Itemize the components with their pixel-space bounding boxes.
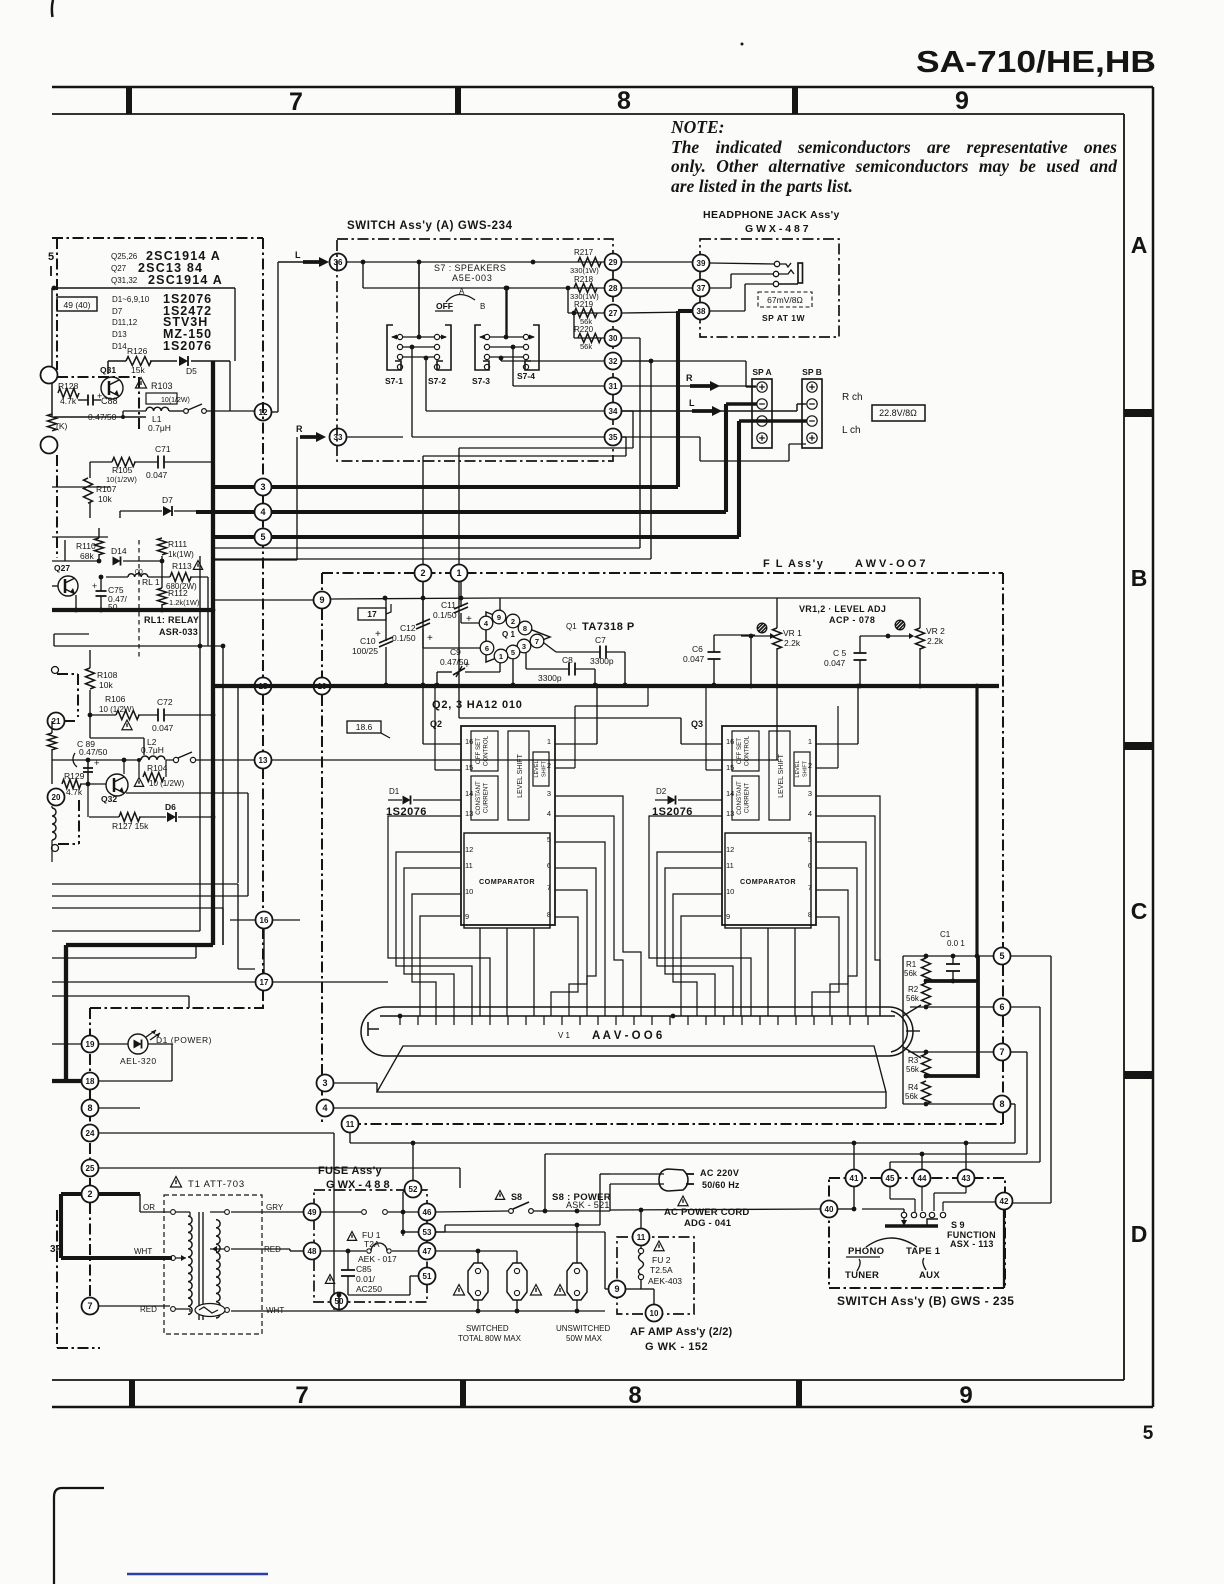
svg-text:10k: 10k xyxy=(99,680,113,690)
svg-text:S7-4: S7-4 xyxy=(517,371,535,381)
wire R126 row xyxy=(108,360,126,362)
thin left feeders xyxy=(52,486,110,488)
svg-text:5: 5 xyxy=(1143,1423,1154,1444)
SP A terminal + top xyxy=(757,382,767,392)
wire 45 to contact2 xyxy=(889,1187,891,1199)
wire L to SPB xyxy=(622,410,797,412)
wire Q32 collector xyxy=(123,760,125,774)
comparator bottom stubs Q2 xyxy=(479,928,481,1016)
wire 42 down edge xyxy=(1003,1210,1005,1288)
wire switch to connector 12 xyxy=(206,410,254,412)
wire 40 to contact1 xyxy=(862,1208,904,1210)
display V1 outer tube xyxy=(361,1007,913,1056)
arrow R to SP xyxy=(690,384,711,388)
VR1 adjust screw xyxy=(757,623,767,633)
connector 46 xyxy=(419,1204,436,1221)
svg-text:3: 3 xyxy=(522,642,526,651)
label S8 xyxy=(495,1191,504,1200)
svg-text:42: 42 xyxy=(1000,1197,1009,1206)
svg-text:R2: R2 xyxy=(908,985,919,994)
svg-text:WHT: WHT xyxy=(134,1247,152,1256)
transformer terminal WHT-left xyxy=(171,1256,176,1261)
diode D6 symbol xyxy=(167,812,176,822)
svg-text:OFF: OFF xyxy=(436,301,453,311)
jack contact 2 xyxy=(773,271,778,276)
svg-text:0.047: 0.047 xyxy=(146,470,168,480)
svg-text:LEVEL: LEVEL xyxy=(795,760,801,777)
svg-text:1S2076: 1S2076 xyxy=(163,339,212,353)
transformer T1 dashed box xyxy=(164,1195,262,1334)
border: bottom band tick 3 xyxy=(796,1380,802,1407)
transformer terminal OR xyxy=(171,1210,176,1215)
connector 10 FL xyxy=(314,678,331,695)
wire LED loop to 18 xyxy=(148,1043,172,1045)
svg-text:PHONO: PHONO xyxy=(848,1246,884,1257)
connector 52 xyxy=(412,1143,414,1180)
svg-text:5: 5 xyxy=(511,648,515,657)
svg-text:10(1/2W): 10(1/2W) xyxy=(106,475,137,484)
fuse FU1 T2A xyxy=(367,1249,371,1253)
connector 37 xyxy=(693,280,710,297)
wire 35 to FL connector 2 xyxy=(622,436,626,438)
svg-text:R112: R112 xyxy=(168,588,188,598)
transformer terminal GRY xyxy=(225,1210,230,1215)
svg-text:Q3: Q3 xyxy=(691,719,703,729)
bottom-left dash-dot box corner xyxy=(56,1210,58,1348)
svg-text:R103: R103 xyxy=(151,381,173,391)
wire 42 to contact5 xyxy=(943,1201,996,1203)
switch S8 xyxy=(509,1209,514,1214)
wire node top xyxy=(52,287,235,289)
svg-text:6: 6 xyxy=(999,1002,1004,1012)
svg-text:SWITCHED: SWITCHED xyxy=(466,1324,509,1333)
AC outlet 3 xyxy=(567,1263,587,1300)
border: right band separator A/B xyxy=(1124,409,1153,417)
svg-text:AUX: AUX xyxy=(919,1270,940,1281)
display bus line xyxy=(380,1015,895,1017)
resistor R126 15k xyxy=(126,357,151,366)
svg-text:27: 27 xyxy=(609,309,618,318)
bottom-left corner bracket xyxy=(54,1488,104,1584)
wire 35 row inside xyxy=(412,436,604,438)
wire 5 to 42 xyxy=(1011,955,1051,957)
wire 36 to 29 xyxy=(347,261,604,263)
connector 5 FL xyxy=(994,948,1011,965)
blue scan line xyxy=(127,1573,268,1575)
fuse FU2 xyxy=(638,1248,643,1253)
connector 30 xyxy=(605,330,622,347)
wire R126 to Q31 xyxy=(107,361,109,374)
wire 6 to 45 xyxy=(1011,1006,1040,1008)
transformer terminal WHT-right xyxy=(225,1308,230,1313)
IC Q2 HA12010 xyxy=(461,726,555,925)
svg-text:12: 12 xyxy=(465,845,473,854)
svg-text:Q31: Q31 xyxy=(100,365,116,375)
svg-text:0.047: 0.047 xyxy=(683,654,705,664)
svg-text:8: 8 xyxy=(87,1103,92,1113)
svg-text:S 9: S 9 xyxy=(951,1220,965,1230)
svg-text:ADG - 041: ADG - 041 xyxy=(684,1218,732,1229)
connector 11 AF xyxy=(633,1229,650,1246)
wire bundle h6 xyxy=(52,995,189,997)
wire 19 to LED xyxy=(99,1043,128,1045)
wire 31 row inside xyxy=(513,385,604,387)
connector 44 xyxy=(914,1170,931,1187)
connector 24 xyxy=(82,1125,99,1142)
svg-text:10: 10 xyxy=(650,1309,659,1318)
thick wire 3 left xyxy=(213,485,254,489)
connector 29 xyxy=(605,254,622,271)
selector arc AUX xyxy=(923,1258,926,1270)
svg-text:56k: 56k xyxy=(904,969,918,978)
connector box 49(40) xyxy=(57,297,97,311)
FL bus thick xyxy=(213,684,999,688)
wire Q3 pin2 xyxy=(816,767,838,769)
switch contact after L1 xyxy=(184,409,189,414)
border: right band separator B/C xyxy=(1124,742,1153,750)
connector 13 xyxy=(255,752,272,769)
svg-text:0.1/50: 0.1/50 xyxy=(433,610,457,620)
wire C7 xyxy=(544,643,556,652)
selector arc PHONO-TAPE xyxy=(866,1238,917,1247)
wire 48 row xyxy=(321,1250,366,1252)
thick wire 5 left xyxy=(213,535,254,539)
svg-text:10 (1/2W): 10 (1/2W) xyxy=(149,779,184,788)
svg-text:D6: D6 xyxy=(165,802,176,812)
arrow L to SP xyxy=(692,409,713,413)
wire cord to outlets xyxy=(445,1224,600,1226)
svg-text:R220: R220 xyxy=(574,325,594,334)
svg-text:D: D xyxy=(1131,1221,1148,1247)
wire R2 to connector6 row xyxy=(925,1005,927,1007)
svg-text:A: A xyxy=(1131,232,1148,258)
diode D5 xyxy=(179,356,188,366)
wire C88 row xyxy=(78,399,88,401)
svg-text:AC POWER CORD: AC POWER CORD xyxy=(664,1207,749,1218)
svg-text:10: 10 xyxy=(465,887,473,896)
transformer secondary coil xyxy=(216,1220,220,1318)
resistor R129 4.7k xyxy=(62,780,81,789)
svg-text:C12: C12 xyxy=(400,623,416,633)
svg-text:CURRENT: CURRENT xyxy=(483,783,490,813)
svg-text:7: 7 xyxy=(295,1382,308,1409)
svg-text:R105: R105 xyxy=(112,465,133,475)
jack contact 3 xyxy=(773,281,778,286)
svg-text:2.2k: 2.2k xyxy=(784,638,801,648)
wire outlet feeds xyxy=(436,1250,517,1252)
svg-text:R1: R1 xyxy=(906,960,917,969)
display grid outline xyxy=(377,1046,886,1092)
thick VR feed xyxy=(975,686,978,956)
svg-text:COMPARATOR: COMPARATOR xyxy=(740,877,796,886)
relay dashed outline xyxy=(138,540,140,657)
thick wire 5 right xyxy=(272,535,739,539)
svg-text:SA-710/HE,HB: SA-710/HE,HB xyxy=(916,44,1156,79)
svg-text:3: 3 xyxy=(808,789,812,798)
connector 33 xyxy=(330,429,347,446)
svg-text:CONTROL: CONTROL xyxy=(744,735,751,766)
svg-text:46: 46 xyxy=(423,1208,432,1217)
svg-text:S7-2: S7-2 xyxy=(428,376,446,386)
svg-text:C88: C88 xyxy=(101,396,118,406)
wire R113 to bus xyxy=(190,576,208,578)
resistor R113 680(2W) xyxy=(170,573,191,582)
svg-text:19: 19 xyxy=(86,1040,95,1049)
wire switch to 13 xyxy=(196,759,254,761)
svg-text:0.47/50: 0.47/50 xyxy=(79,747,108,757)
svg-text:ACP - 078: ACP - 078 xyxy=(829,615,875,625)
svg-text:52: 52 xyxy=(409,1185,418,1194)
display pin ticks xyxy=(399,1016,401,1025)
svg-text:R113: R113 xyxy=(172,561,192,571)
wire x200 vertical xyxy=(199,556,201,646)
connector 34 xyxy=(605,403,622,420)
wire S7 drop from 28 xyxy=(505,288,507,337)
svg-text:0.047: 0.047 xyxy=(152,723,174,733)
wire 40 row xyxy=(610,1209,820,1210)
resistor R107 10k xyxy=(84,478,93,503)
resistor R128 4.7k xyxy=(58,389,79,398)
svg-text:13: 13 xyxy=(465,809,473,818)
connector 7 xyxy=(82,1298,99,1315)
svg-text:A5E-003: A5E-003 xyxy=(452,273,493,283)
capacitor C1 0.01 xyxy=(946,963,960,965)
FL dash-dot box right xyxy=(1002,573,1004,947)
connector 42 xyxy=(996,1193,1013,1210)
connector 50 xyxy=(331,1293,348,1310)
svg-text:13: 13 xyxy=(726,809,734,818)
svg-text:A W V - O O 7: A W V - O O 7 xyxy=(855,558,926,570)
border: bottom band upper rule xyxy=(52,1379,1124,1381)
svg-text:L: L xyxy=(689,398,695,408)
resistor R110 68k xyxy=(95,538,104,555)
connector 36 xyxy=(330,254,347,271)
switch assy A dash-dot box xyxy=(337,239,613,461)
svg-text:18.6: 18.6 xyxy=(356,722,373,732)
svg-text:36: 36 xyxy=(334,258,343,267)
left dash-dot partial box mid-2 xyxy=(78,800,80,844)
wire bundle v1 xyxy=(237,884,239,969)
connector 11 FL xyxy=(342,1116,359,1133)
svg-text:16: 16 xyxy=(260,916,269,925)
resistor R217 330(1W) xyxy=(578,258,601,267)
svg-text:D1~6,9,10: D1~6,9,10 xyxy=(112,295,150,304)
svg-text:2: 2 xyxy=(87,1189,92,1199)
svg-text:11: 11 xyxy=(465,861,473,870)
interlock contacts xyxy=(362,1210,367,1215)
svg-text:38: 38 xyxy=(697,307,706,316)
capacitor C72 xyxy=(157,709,159,722)
border: top band tick 2 xyxy=(455,87,461,114)
svg-text:SWITCH Ass'y (A) GWS-234: SWITCH Ass'y (A) GWS-234 xyxy=(347,220,513,232)
svg-text:R217: R217 xyxy=(574,248,594,257)
wire left vertical x52 xyxy=(51,288,53,417)
svg-text:10 (1/2W): 10 (1/2W) xyxy=(99,705,134,714)
svg-text:11: 11 xyxy=(637,1233,646,1242)
connector 3 FL xyxy=(317,1075,334,1092)
svg-text:330(1W): 330(1W) xyxy=(570,266,599,275)
transistor Q31 xyxy=(101,377,123,399)
wire connector1 to Q3 pin16 xyxy=(458,582,460,718)
thick wire SPA minus down xyxy=(726,402,757,406)
svg-text:6: 6 xyxy=(485,644,489,653)
svg-text:R218: R218 xyxy=(574,275,594,284)
svg-text:17: 17 xyxy=(367,609,377,619)
svg-text:S7 : SPEAKERS: S7 : SPEAKERS xyxy=(434,263,506,273)
wire C12 to pin6 xyxy=(423,647,480,649)
headphone dash-dot box xyxy=(700,239,839,337)
transistor Q27 xyxy=(58,576,78,596)
thick stub into 18 xyxy=(52,1079,82,1083)
connector 9 AF xyxy=(609,1281,626,1298)
wire VR2 bottom xyxy=(919,648,921,686)
wire 34 to FL connector 1 xyxy=(622,410,633,412)
svg-text:8: 8 xyxy=(523,624,527,633)
AC outlet 2 xyxy=(507,1263,527,1300)
svg-text:V 1: V 1 xyxy=(558,1031,571,1040)
thick vertical x978 xyxy=(976,956,980,1078)
wire 8 right xyxy=(99,1107,140,1109)
border: bottom band tick 2 xyxy=(460,1380,466,1407)
svg-text:4: 4 xyxy=(808,809,812,818)
wire 9 left stub xyxy=(214,599,313,601)
wire bundle h1 xyxy=(52,883,238,885)
svg-text:20: 20 xyxy=(52,793,61,802)
capacitor C6 xyxy=(708,651,721,653)
connector 4 FL xyxy=(317,1100,334,1117)
svg-text:4: 4 xyxy=(260,507,265,517)
wire L1 row xyxy=(54,416,146,418)
arrow R xyxy=(300,435,317,439)
svg-text:Q25,26: Q25,26 xyxy=(111,252,138,261)
transformer terminal RED-left xyxy=(171,1307,176,1312)
svg-text:VR 2: VR 2 xyxy=(926,626,945,636)
svg-text:9: 9 xyxy=(497,613,501,622)
wire bundle h4 xyxy=(52,930,200,932)
VR2 adjust screw xyxy=(895,620,905,630)
svg-text:13: 13 xyxy=(259,756,268,765)
svg-text:9: 9 xyxy=(959,1382,972,1409)
wire C85 xyxy=(347,1251,349,1270)
wire 28 to 37 xyxy=(622,287,692,289)
connector 16 xyxy=(256,912,273,929)
svg-text:D14: D14 xyxy=(111,546,127,556)
svg-text:51: 51 xyxy=(423,1272,432,1281)
connector 47 xyxy=(419,1243,436,1260)
svg-text:53: 53 xyxy=(423,1228,432,1237)
capacitor C85 xyxy=(341,1269,355,1271)
svg-text:FU 2: FU 2 xyxy=(652,1255,671,1265)
connector 28 xyxy=(605,280,622,297)
resistor R106 xyxy=(116,711,139,720)
arrow L xyxy=(303,260,320,264)
wire 43 to contact4 xyxy=(965,1187,967,1193)
svg-text:48: 48 xyxy=(308,1247,317,1256)
svg-text:2: 2 xyxy=(511,617,515,626)
svg-text:FUSE Ass'y: FUSE Ass'y xyxy=(318,1165,382,1177)
SP A terminal - 2 xyxy=(757,416,767,426)
thick wire 4 right xyxy=(272,510,726,514)
svg-text:S7-3: S7-3 xyxy=(472,376,490,386)
svg-text:C85: C85 xyxy=(356,1264,372,1274)
wire unswitched feed xyxy=(436,1231,605,1233)
wire GRY to 49 xyxy=(231,1211,303,1213)
wire C1 xyxy=(952,956,954,964)
transistor Q32 xyxy=(106,774,128,796)
svg-text:A A V - O O 6: A A V - O O 6 xyxy=(592,1030,662,1042)
svg-text:0.01/: 0.01/ xyxy=(356,1274,376,1284)
wire bundle v3 xyxy=(222,908,224,945)
svg-text:0.1/50: 0.1/50 xyxy=(392,633,416,643)
thick junction R1R2 xyxy=(924,979,978,983)
svg-text:L: L xyxy=(295,250,301,260)
svg-text:SP A: SP A xyxy=(752,367,771,377)
svg-text:16: 16 xyxy=(465,737,473,746)
wire bundle vertical x223 xyxy=(222,686,224,945)
svg-text:Q2: Q2 xyxy=(430,719,442,729)
wire D7 row xyxy=(120,510,162,512)
wire 11 up xyxy=(640,1210,642,1228)
svg-text:AF AMP Ass'y (2/2): AF AMP Ass'y (2/2) xyxy=(630,1326,733,1338)
svg-text:R108: R108 xyxy=(97,670,118,680)
connector 32 xyxy=(605,353,622,370)
svg-text:33: 33 xyxy=(334,433,343,442)
svg-text:CONSTANT: CONSTANT xyxy=(475,781,482,815)
resistor R220 56k xyxy=(578,334,601,343)
capacitor C75 xyxy=(96,590,107,592)
svg-text:0.0 1: 0.0 1 xyxy=(947,939,965,948)
wire 9 row to Q1 xyxy=(331,598,500,599)
cut coil left col xyxy=(52,808,56,840)
svg-text:D7: D7 xyxy=(112,307,123,316)
svg-text:1: 1 xyxy=(547,737,551,746)
SP B terminal - 2 xyxy=(807,416,817,426)
wire bundle h2 xyxy=(52,895,248,897)
svg-text:R104: R104 xyxy=(147,763,168,773)
svg-text:100/25: 100/25 xyxy=(352,646,378,656)
wire C8 xyxy=(525,653,527,669)
svg-text:SHIFT: SHIFT xyxy=(803,760,809,777)
svg-text:8: 8 xyxy=(617,87,631,115)
svg-text:Q31,32: Q31,32 xyxy=(111,276,138,285)
svg-text:25: 25 xyxy=(86,1164,95,1173)
wire 44 to contact3 xyxy=(921,1187,923,1211)
LED D1 POWER xyxy=(128,1034,148,1054)
SP B terminal - 1 xyxy=(807,399,817,409)
svg-text:22.8V/8Ω: 22.8V/8Ω xyxy=(879,408,917,418)
svg-text:47: 47 xyxy=(423,1247,432,1256)
switch S9 selector bar xyxy=(885,1224,938,1227)
wire 31 to SPA xyxy=(622,385,756,387)
display right cap arcs xyxy=(891,1011,907,1052)
warn outlet 3 xyxy=(554,1285,565,1296)
svg-text:+: + xyxy=(92,581,97,591)
wire D1 to Q2 xyxy=(413,799,461,801)
connector 4 xyxy=(255,504,272,521)
cut tick below 5 xyxy=(50,266,52,276)
connector 19 xyxy=(82,1036,99,1053)
SP B terminal + top xyxy=(807,382,817,392)
svg-text:11: 11 xyxy=(346,1120,355,1129)
L channel feed wire xyxy=(278,261,303,263)
connector 53 xyxy=(419,1224,436,1241)
wire 16 stub xyxy=(230,919,255,921)
wire main row 760 xyxy=(52,759,139,761)
svg-text:7: 7 xyxy=(87,1301,92,1311)
AC cord line 1 xyxy=(610,1173,664,1175)
FL dash-dot box bottom xyxy=(350,1123,1003,1125)
svg-text:R3: R3 xyxy=(908,1056,919,1065)
